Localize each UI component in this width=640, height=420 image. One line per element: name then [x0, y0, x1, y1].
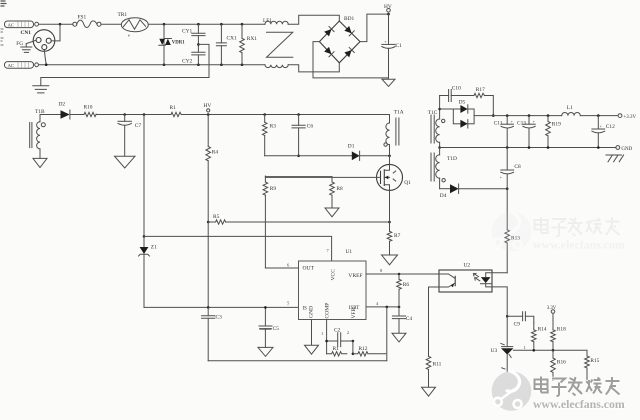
chassis ground [606, 155, 624, 162]
svg-text:COMP: COMP [325, 303, 331, 319]
resistor R16 [551, 350, 566, 380]
svg-text:CY2: CY2 [182, 59, 192, 65]
svg-text:R17: R17 [476, 87, 485, 93]
wire COMP pin [326, 320, 328, 354]
resistor R10 [84, 105, 97, 117]
resistor R8 [330, 177, 343, 208]
svg-text:C8: C8 [514, 164, 521, 170]
svg-text:R15: R15 [590, 358, 599, 364]
transistor Q1 MOSFET [377, 164, 412, 190]
svg-text:VFB: VFB [351, 308, 357, 319]
capacitor C10 [449, 86, 461, 102]
svg-text:TR1: TR1 [118, 12, 128, 18]
resistor R5 [208, 214, 225, 224]
wire U2 pin2 down [492, 287, 507, 316]
wire IS net pin5 [144, 306, 299, 308]
resistor R19 [546, 116, 561, 148]
transformer winding T1D [431, 148, 457, 189]
svg-text:RX1: RX1 [247, 36, 257, 42]
fuse FS1 [73, 15, 101, 28]
svg-text:GND: GND [621, 147, 632, 152]
terminal HV2 [204, 103, 212, 112]
wire fuse to TR1 [101, 23, 121, 25]
svg-text:R3: R3 [270, 123, 277, 129]
resistor R1 [170, 105, 182, 117]
ground under R7 [382, 255, 398, 265]
resistor R14 [532, 323, 547, 350]
node RX1 bottom [241, 63, 244, 66]
svg-text:C4: C4 [406, 316, 413, 322]
svg-text:C9: C9 [514, 321, 521, 327]
resistor R1 comp [327, 346, 347, 356]
wire U2 pin3 to R11 [429, 287, 440, 356]
node VDR1 top [163, 23, 166, 26]
svg-text:C1: C1 [396, 43, 403, 49]
node D4 C8 R13 [506, 187, 509, 190]
secondary ground rail [440, 147, 616, 149]
earth ground FG [21, 47, 32, 52]
node C8 rail [506, 146, 509, 149]
node R4 R5 [207, 221, 210, 224]
svg-text:R1: R1 [333, 346, 340, 352]
node C11 top [506, 114, 509, 117]
svg-text:R19: R19 [552, 121, 561, 127]
wire bridge minus return [313, 42, 389, 78]
svg-text:AC: AC [8, 22, 14, 27]
svg-text:D4: D4 [440, 193, 447, 199]
capacitor CY1 [182, 24, 205, 52]
node R14 bottom [533, 349, 536, 352]
svg-text:CY1: CY1 [182, 29, 192, 35]
node R19 top [547, 114, 550, 117]
node pin4 x386.8 [386, 306, 389, 309]
svg-text:AC: AC [8, 63, 14, 68]
capacitor C6 [292, 115, 313, 156]
svg-text:L1: L1 [567, 105, 573, 111]
capacitor CY2 [182, 52, 205, 64]
capacitor C11 [494, 116, 514, 148]
svg-text:U1: U1 [346, 249, 353, 255]
svg-text:R18: R18 [557, 327, 566, 333]
svg-text:C3: C3 [216, 314, 223, 320]
node CY2 bottom [197, 63, 200, 66]
svg-text:GND: GND [309, 306, 315, 318]
svg-text:D2: D2 [59, 102, 66, 108]
terminal +3.3V [618, 114, 636, 120]
svg-text:R6: R6 [403, 282, 410, 288]
svg-text:VDR1: VDR1 [172, 41, 185, 46]
svg-text:D5: D5 [459, 99, 466, 105]
ground under C4 [392, 333, 406, 342]
wire GND pin [311, 320, 313, 346]
svg-text:C13: C13 [517, 121, 526, 127]
transformer winding T1C [428, 96, 445, 148]
svg-text:T1A: T1A [394, 110, 404, 116]
wire CY mid to earth [41, 44, 209, 85]
resistor R15 [585, 356, 600, 379]
ground under C1 [382, 79, 395, 86]
node CN1 bottom [45, 63, 48, 66]
node CX1 top [220, 23, 223, 26]
node comp mid [352, 353, 355, 356]
svg-text:OUT: OUT [303, 265, 315, 271]
resistor R12 [353, 346, 386, 356]
terminal HV [384, 4, 392, 12]
wire node x60 down to CN1 right pin [51, 24, 60, 41]
ground under U1 GND [305, 345, 319, 354]
wire TR1 to LF1 top [148, 23, 265, 25]
earth ground mains [33, 86, 49, 93]
wire VREF pin8 [366, 273, 439, 275]
svg-text:BD1: BD1 [344, 16, 354, 22]
scan artifact top-left corner [1, 1, 7, 6]
wire OUT pin6 [265, 267, 298, 269]
node center tap [438, 146, 441, 149]
svg-text:U2: U2 [464, 262, 471, 268]
diode D2 [59, 102, 70, 119]
node C6 [297, 113, 300, 116]
resistor R11 [426, 356, 441, 387]
ground under R11 [422, 387, 436, 396]
resistor R6 [397, 274, 410, 307]
wire AC top to fuse [39, 23, 74, 25]
node R3 [263, 113, 266, 116]
node x144 rail [143, 113, 146, 116]
connector CN1 terminal AC top [5, 21, 39, 28]
connector CN1 [21, 30, 55, 52]
svg-text:CN1: CN1 [21, 30, 32, 36]
svg-text:+3.3V: +3.3V [623, 115, 636, 120]
svg-text:CX1: CX1 [227, 35, 237, 41]
wire C10 to R17 [451, 95, 474, 97]
svg-text:R8: R8 [336, 186, 343, 192]
node C9 tap [506, 315, 509, 318]
node HV top [387, 13, 390, 16]
node VDR1 bottom [163, 63, 166, 66]
wire x208 down to IS net [207, 222, 209, 307]
dual diode D5 [440, 99, 494, 128]
wire R17 to out node [485, 96, 494, 116]
wire VCC to U1 pin7 [144, 236, 332, 261]
diode D4 [440, 184, 508, 199]
node C2 left [325, 340, 328, 343]
capacitor C2 [327, 328, 353, 347]
output rail 3.3V [493, 115, 618, 117]
capacitor C1 [382, 14, 402, 79]
node HV2 [207, 113, 210, 116]
wire bridge plus to HV [360, 14, 389, 41]
capacitor CX1 [216, 24, 237, 64]
thermistor TR1 [118, 12, 149, 38]
node R19 rail [547, 146, 550, 149]
svg-text:Z1: Z1 [151, 245, 157, 251]
resistor RX1 [240, 24, 258, 64]
node C13 rail [528, 146, 531, 149]
gate wire [265, 176, 376, 177]
wire CN1 left pin to FG [26, 40, 36, 46]
node T1A bottom [388, 155, 391, 158]
node pin4 x399 [398, 306, 401, 309]
svg-text:C5: C5 [273, 326, 280, 332]
shunt regulator U3 [491, 343, 514, 376]
capacitor C8 [500, 148, 521, 189]
node C6 bottom [297, 155, 300, 158]
svg-text:www.elecfans.com: www.elecfans.com [533, 397, 625, 411]
op-amp controller U1 [299, 249, 367, 320]
node RX1 top [241, 23, 244, 26]
svg-text:R7: R7 [394, 233, 401, 239]
wire opto node to U3 [506, 316, 508, 346]
svg-text:R10: R10 [84, 105, 93, 111]
varistor VDR1 [159, 24, 185, 64]
connector CN1 terminal AC bottom [5, 62, 39, 69]
terminal 3.3V sense [547, 306, 557, 330]
svg-text:FS1: FS1 [78, 15, 87, 21]
wire gate run [265, 176, 332, 178]
svg-text:HV: HV [384, 4, 392, 10]
svg-text:R5: R5 [213, 214, 220, 220]
transformer winding T1B [30, 109, 46, 158]
diode D1 [348, 144, 360, 161]
capacitor C13 [517, 116, 536, 148]
node CY1 top [197, 23, 200, 26]
svg-text:R12: R12 [359, 346, 368, 352]
watermark logo and text [492, 371, 625, 411]
svg-text:T1C: T1C [428, 110, 438, 116]
svg-text:e: e [128, 33, 130, 38]
wire AC bottom to LF1 bottom [39, 64, 266, 66]
ground under T1B [33, 158, 47, 167]
wire R5 to Q1 source node [226, 221, 390, 223]
svg-text:VCC: VCC [331, 269, 337, 281]
wire Q1 source to R7 [389, 190, 391, 231]
node CY mid [197, 43, 200, 46]
inductor L1 [562, 105, 581, 116]
resistor R7 [387, 231, 400, 255]
svg-text:HV: HV [204, 103, 212, 109]
resistor R4 [206, 115, 218, 223]
resistor R13 [505, 189, 520, 273]
wire pin4 net vertical [386, 307, 388, 361]
resistor R18 [551, 327, 566, 351]
resistor R9 [263, 177, 276, 268]
wire REF net [513, 350, 587, 356]
svg-text:Q1: Q1 [404, 180, 411, 186]
svg-text:FG: FG [16, 41, 23, 47]
svg-text:R4: R4 [212, 150, 219, 156]
capacitor C3 [202, 307, 222, 360]
node Q1 source R5 [388, 221, 391, 224]
node secondary out [492, 114, 495, 117]
zener Z1 [139, 236, 157, 307]
node C5 top [264, 306, 267, 309]
bottom rail wire [208, 360, 387, 362]
bridge rectifier BD1 [319, 16, 360, 63]
svg-text:VREF: VREF [348, 273, 362, 279]
node C3 top [207, 306, 210, 309]
wire x144 down to VCC node [143, 115, 145, 237]
node C2 right [352, 340, 355, 343]
ground under R8 [325, 208, 339, 217]
primary rail wire [40, 114, 390, 116]
capacitor C4 [392, 307, 412, 333]
svg-text:IS: IS [303, 307, 308, 312]
capacitor C7 [118, 115, 141, 157]
svg-text:C11: C11 [494, 121, 503, 127]
svg-text:T1D: T1D [447, 156, 457, 162]
svg-text:R9: R9 [270, 186, 277, 192]
line filter LF1 [263, 18, 293, 68]
capacitor C12 [592, 116, 615, 148]
svg-text:C10: C10 [452, 86, 461, 92]
wire C2 right down [352, 341, 354, 354]
svg-text:R1: R1 [170, 105, 177, 111]
ground under C5 [258, 347, 273, 356]
terminal GND [616, 146, 633, 152]
svg-text:R16: R16 [557, 359, 566, 365]
svg-text:R11: R11 [433, 362, 442, 368]
capacitor C9 [507, 312, 534, 328]
resistor R17 [474, 87, 485, 98]
node CX1 bottom [220, 63, 223, 66]
wire T1C top to C10 [440, 95, 449, 97]
node C12 top [597, 114, 600, 117]
wire T1A to Q1 drain [389, 156, 391, 165]
svg-text:C6: C6 [307, 123, 314, 129]
node R6 top [398, 273, 401, 276]
wire snubber bottom [265, 155, 390, 157]
svg-text:C12: C12 [606, 124, 615, 130]
node junction at x60 top [59, 23, 62, 26]
node C13 top [528, 114, 531, 117]
svg-text:D1: D1 [348, 144, 355, 150]
node R18 R16 [552, 349, 555, 352]
wire U2 pin4 [492, 272, 507, 274]
resistor R3 [262, 115, 276, 156]
wire LF1 bottom to bridge [288, 63, 339, 72]
scan artifact left edge text [1, 29, 4, 45]
capacitor C5 [259, 307, 279, 347]
svg-text:C2: C2 [334, 328, 341, 334]
svg-text:C7: C7 [135, 123, 142, 129]
optocoupler U2 [439, 262, 492, 292]
svg-text:R14: R14 [538, 327, 547, 333]
node T1C D5 tap [438, 108, 441, 111]
node VCC junction [143, 235, 146, 238]
wire LF1 top to bridge [288, 15, 339, 24]
wire CN1 bottom pin lead [44, 50, 46, 65]
ground under C7 [115, 156, 136, 168]
wire pin4 [366, 306, 399, 308]
node C7 [123, 113, 126, 116]
transformer winding T1A [384, 110, 404, 156]
svg-text:U3: U3 [491, 348, 498, 354]
node C12 rail [597, 146, 600, 149]
